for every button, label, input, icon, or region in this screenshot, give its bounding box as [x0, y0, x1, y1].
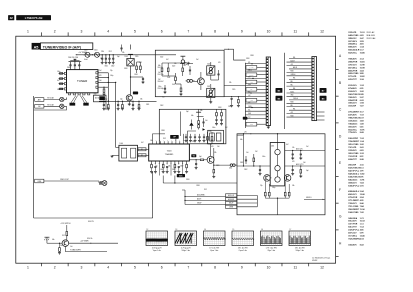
svg-text:11: 11 — [294, 265, 298, 269]
pin — [312, 79, 314, 80]
wire — [237, 165, 270, 167]
connector — [60, 97, 64, 101]
svg-text:A5: A5 — [34, 45, 39, 49]
wire — [59, 88, 65, 90]
svg-text:1205: 1205 — [209, 131, 212, 133]
wire — [289, 89, 312, 91]
diode 6200 — [203, 128, 206, 131]
svg-text:4k7: 4k7 — [166, 59, 169, 61]
svg-text:3698-3V3: 3698-3V3 — [348, 182, 356, 184]
svg-text:2110: 2110 — [101, 51, 104, 53]
resistor 3101 — [60, 78, 63, 80]
svg-text:DEEM: DEEM — [229, 207, 233, 209]
svg-text:+8V: +8V — [244, 132, 247, 134]
svg-text:3208: 3208 — [218, 107, 222, 109]
resistor 3231 — [221, 109, 223, 112]
svg-text:8: 8 — [214, 265, 216, 269]
wire — [289, 99, 312, 101]
capacitor 2106 — [78, 66, 80, 70]
svg-text:100p: 100p — [104, 99, 108, 101]
svg-text:5143: 5143 — [167, 77, 170, 79]
svg-text:3810-CVBS: 3810-CVBS — [348, 144, 359, 146]
svg-text:8: 8 — [214, 30, 216, 34]
pin — [167, 141, 169, 144]
tuner pin — [96, 81, 98, 83]
wire — [237, 198, 258, 200]
capacitor 2244 — [166, 165, 168, 167]
connector — [60, 104, 64, 108]
svg-text:L7SEU7S AB: L7SEU7S AB — [25, 16, 43, 20]
wire — [287, 71, 312, 73]
svg-text:2329-IF-PLL: 2329-IF-PLL — [348, 230, 360, 232]
crystal 1105 — [127, 59, 134, 66]
svg-text:5-C7: 5-C7 — [360, 50, 364, 52]
supply tee — [128, 53, 133, 55]
svg-text:2205: 2205 — [135, 56, 139, 58]
svg-text:5p6: 5p6 — [186, 111, 189, 113]
svg-text:SND-IF: SND-IF — [197, 203, 202, 205]
wire — [245, 77, 266, 79]
resistor 3243 — [162, 164, 164, 167]
svg-text:6-B1: 6-B1 — [360, 150, 364, 152]
resistor 3230 — [216, 109, 218, 112]
svg-text:12: 12 — [320, 30, 324, 34]
ground — [58, 252, 61, 254]
svg-text:1-H4: 1-H4 — [360, 102, 364, 105]
svg-text:5: 5 — [134, 265, 136, 269]
arrow — [76, 54, 77, 55]
net tag black — [177, 174, 185, 177]
capacitor 2105 — [74, 66, 76, 70]
wire — [64, 99, 67, 101]
svg-text:2: 2 — [54, 265, 56, 269]
wire — [287, 106, 312, 108]
pin — [186, 161, 188, 164]
wire — [245, 92, 266, 94]
svg-text:6168-3V3: 6168-3V3 — [348, 91, 356, 93]
svg-text:1k0: 1k0 — [99, 80, 102, 82]
wire emitter — [64, 247, 66, 252]
ground — [267, 126, 270, 128]
svg-text:6427-IF-PLL: 6427-IF-PLL — [348, 170, 360, 173]
svg-text:10: 10 — [267, 265, 271, 269]
svg-text:3492-SDA: 3492-SDA — [348, 217, 357, 220]
svg-text:2760-DEINT: 2760-DEINT — [348, 112, 359, 114]
resistor 3145 — [182, 68, 184, 72]
wire — [116, 147, 119, 149]
wire — [287, 113, 312, 115]
discriminator coil 5401 — [270, 143, 285, 186]
svg-text:6293-TXT: 6293-TXT — [348, 79, 357, 81]
pin — [312, 70, 314, 71]
svg-text:470: 470 — [211, 146, 214, 148]
component value labels — [52, 52, 309, 248]
capacitor 2247 — [178, 165, 180, 167]
svg-text:3593-5V0: 3593-5V0 — [348, 126, 356, 128]
svg-text:3301: 3301 — [172, 169, 176, 171]
pin — [267, 86, 269, 87]
ground — [220, 123, 223, 125]
svg-text:100p: 100p — [272, 187, 276, 189]
pin — [182, 161, 184, 164]
svg-text:1: 1 — [27, 30, 29, 34]
svg-text:6-H3: 6-H3 — [360, 100, 364, 102]
net destination list — [348, 31, 375, 246]
svg-text:11-G6: 11-G6 — [360, 209, 365, 211]
ground — [299, 175, 302, 177]
wire — [287, 75, 312, 77]
svg-text:4k7: 4k7 — [57, 80, 60, 82]
svg-text:2112: 2112 — [109, 51, 112, 53]
svg-text:2k2: 2k2 — [255, 151, 258, 153]
pin — [162, 161, 164, 164]
ground — [185, 139, 188, 141]
ground — [117, 108, 120, 110]
svg-text:5: 5 — [134, 30, 136, 34]
svg-text:9-E8: 9-E8 — [360, 73, 364, 75]
ground — [195, 167, 198, 169]
svg-text:FBL: FBL — [291, 105, 294, 107]
pin — [267, 62, 269, 63]
capacitor 2213 — [199, 134, 201, 136]
ground — [121, 108, 124, 110]
wire — [289, 109, 312, 111]
pin — [267, 101, 269, 102]
svg-text:100n: 100n — [212, 127, 216, 129]
svg-text:100n: 100n — [262, 156, 266, 158]
pin — [179, 141, 181, 144]
pin — [312, 117, 314, 118]
tuner pin — [64, 88, 66, 90]
wire 5V rail — [99, 100, 157, 102]
wire — [287, 85, 312, 87]
resistor 3262 — [211, 137, 213, 141]
svg-text:5401: 5401 — [271, 146, 274, 148]
wire — [264, 181, 266, 192]
wire — [182, 164, 184, 175]
svg-text:2-D9: 2-D9 — [360, 41, 364, 43]
svg-text:6340-IF-PLL: 6340-IF-PLL — [348, 184, 360, 187]
svg-text:SND-IF: SND-IF — [229, 203, 234, 205]
svg-text:7099-3V3: 7099-3V3 — [348, 203, 356, 205]
svg-text:4: 4 — [107, 265, 109, 269]
wire — [64, 105, 67, 107]
svg-text:100n: 100n — [158, 86, 162, 88]
capacitor 2147 — [217, 73, 219, 75]
svg-text:3208: 3208 — [246, 58, 250, 60]
wire — [237, 194, 258, 196]
resistor 3415 — [300, 170, 302, 174]
svg-text:7021-VID: 7021-VID — [348, 147, 357, 149]
net label box — [246, 80, 257, 84]
pin — [174, 161, 176, 164]
svg-text:7756-SCL: 7756-SCL — [348, 132, 357, 134]
svg-text:FBL: FBL — [291, 84, 294, 86]
svg-text:2205: 2205 — [216, 165, 220, 167]
svg-text:8-C7: 8-C7 — [360, 112, 364, 114]
capacitor 2241 — [154, 165, 156, 167]
svg-text:33k: 33k — [122, 52, 125, 54]
wire — [170, 164, 172, 175]
antenna symbol — [45, 236, 50, 238]
wire — [277, 134, 279, 143]
wire AS — [98, 86, 108, 88]
resistor 3142 — [167, 68, 169, 72]
svg-text:4: 4 — [107, 30, 109, 34]
svg-text:10-B5: 10-B5 — [360, 53, 365, 55]
svg-text:5776-VID: 5776-VID — [348, 76, 357, 78]
wire — [245, 103, 266, 105]
svg-text:FBL: FBL — [293, 78, 296, 80]
svg-text:7296-DEINT: 7296-DEINT — [348, 141, 359, 143]
net label box — [138, 154, 146, 157]
svg-text:3301: 3301 — [240, 162, 244, 164]
svg-text:8-A3: 8-A3 — [360, 243, 364, 246]
svg-text:3-D4: 3-D4 — [360, 69, 364, 72]
svg-text:100p: 100p — [160, 169, 164, 171]
tuner pin — [96, 77, 98, 79]
svg-text:100n: 100n — [57, 71, 61, 73]
capacitor 2203 — [202, 121, 204, 123]
svg-text:SIF: SIF — [250, 89, 252, 91]
net label box — [35, 179, 44, 183]
ground — [198, 139, 201, 141]
wire — [245, 110, 266, 112]
svg-text:1k0: 1k0 — [303, 162, 306, 164]
capacitor 2411 — [300, 153, 302, 155]
svg-text:6529-SCL: 6529-SCL — [348, 53, 357, 55]
svg-text:FBL: FBL — [291, 81, 294, 83]
svg-text:1-D8: 1-D8 — [360, 123, 364, 125]
net label box — [226, 194, 237, 197]
wire — [285, 150, 325, 152]
svg-text:3059-3V3: 3059-3V3 — [348, 103, 356, 105]
pin — [175, 141, 177, 144]
svg-text:1105: 1105 — [125, 56, 128, 58]
svg-text:4-B1: 4-B1 — [360, 43, 364, 46]
svg-text:SND-L: SND-L — [248, 69, 252, 71]
svg-text:3803-CVBS: 3803-CVBS — [348, 153, 359, 155]
svg-text:5141: 5141 — [207, 86, 210, 88]
wire IF out — [98, 81, 116, 83]
capacitor 2104 — [70, 66, 72, 70]
wire — [105, 102, 107, 110]
ground — [107, 108, 110, 110]
ground — [299, 157, 302, 159]
ground — [166, 171, 169, 173]
resistor 3101 — [60, 83, 63, 85]
waveform inset 1 — [146, 229, 168, 252]
svg-text:3V3 12-A4: 3V3 12-A4 — [366, 37, 375, 40]
svg-text:6660-AUD-R: 6660-AUD-R — [348, 49, 360, 52]
ground — [291, 157, 294, 159]
junction — [243, 133, 244, 134]
svg-text:2302: 2302 — [111, 66, 115, 68]
svg-text:10k: 10k — [150, 140, 153, 142]
svg-text:1n5: 1n5 — [158, 72, 161, 74]
svg-text:2759-POR: 2759-POR — [348, 197, 358, 199]
wire +5V rail — [76, 54, 156, 56]
svg-text:TXT: TXT — [248, 117, 251, 119]
svg-text:2-H2: 2-H2 — [360, 91, 364, 93]
svg-text:3-F9: 3-F9 — [360, 171, 364, 173]
ground — [128, 103, 131, 105]
svg-text:4k7: 4k7 — [141, 142, 144, 144]
resistor 3151 — [238, 100, 240, 103]
pin — [312, 105, 314, 106]
wire — [185, 196, 226, 198]
svg-text:7200: 7200 — [167, 151, 173, 153]
svg-text:22p: 22p — [260, 185, 263, 187]
pin — [267, 122, 269, 123]
svg-text:33k: 33k — [214, 152, 217, 154]
svg-text:3-F6: 3-F6 — [360, 176, 364, 178]
tuner pin — [83, 93, 85, 95]
wire +5V top — [224, 48, 234, 50]
wire — [289, 58, 312, 60]
svg-text:2584-BCL: 2584-BCL — [348, 43, 358, 46]
net tag black — [191, 154, 196, 157]
wire — [245, 70, 266, 72]
capacitor 2145 — [189, 69, 191, 71]
wire — [137, 61, 141, 63]
svg-text:B: B — [339, 81, 341, 85]
svg-text:8-F6 12V: 8-F6 12V — [88, 221, 94, 223]
net label box — [226, 201, 237, 204]
wire — [237, 206, 258, 208]
svg-text:+12V SWITCH: +12V SWITCH — [61, 223, 71, 225]
svg-text:8-F2: 8-F2 — [360, 156, 364, 158]
ground — [230, 104, 233, 106]
svg-text:3159-SIF: 3159-SIF — [348, 106, 357, 108]
wire — [193, 80, 198, 82]
svg-text:CVBS-E: CVBS-E — [291, 74, 296, 76]
capacitor 2210 — [185, 134, 187, 136]
svg-text:3-B3: 3-B3 — [360, 120, 364, 122]
pin — [267, 116, 269, 117]
transistor 7402 — [284, 175, 291, 182]
svg-text:RGB: RGB — [291, 115, 294, 117]
wire — [185, 199, 226, 201]
svg-text:5342-CVBS: 5342-CVBS — [348, 211, 359, 214]
wire — [158, 164, 160, 175]
svg-text:9-C1: 9-C1 — [360, 168, 364, 170]
wire — [243, 134, 245, 166]
ground — [215, 123, 218, 125]
group border — [244, 63, 246, 128]
wire AGC — [98, 72, 108, 74]
svg-text:IF1: IF1 — [141, 149, 143, 151]
svg-text:TXT: TXT — [248, 77, 251, 79]
svg-text:1100: 1100 — [67, 67, 71, 69]
svg-text:5260: 5260 — [229, 167, 232, 169]
svg-text:070402: 070402 — [312, 260, 317, 262]
capacitor 2212 — [194, 134, 196, 136]
reference triangle — [189, 122, 193, 125]
wire — [184, 190, 186, 205]
svg-text:100p: 100p — [110, 75, 114, 77]
svg-text:2n2: 2n2 — [99, 70, 102, 72]
svg-text:2205: 2205 — [232, 89, 236, 91]
inductor 5104 — [95, 52, 100, 57]
capacitor 2130 — [103, 101, 105, 104]
chassis tag L7SEU7S — [16, 15, 51, 20]
wire — [287, 82, 312, 84]
svg-text:5-F9: 5-F9 — [360, 233, 364, 235]
pin — [267, 68, 269, 69]
wire — [285, 165, 325, 167]
pin — [312, 58, 314, 59]
svg-text:1k0: 1k0 — [162, 97, 165, 99]
shield fan left — [71, 96, 78, 103]
pin — [170, 161, 172, 164]
wire — [245, 63, 266, 65]
svg-text:2-D4: 2-D4 — [360, 196, 364, 199]
svg-text:FBL: FBL — [293, 109, 296, 111]
resistor 3413 — [288, 192, 290, 196]
svg-text:2104 2105 2106: 2104 2105 2106 — [68, 57, 78, 59]
svg-text:10-F6: 10-F6 — [360, 129, 365, 131]
tunable coil 5141 — [207, 88, 215, 97]
svg-text:2302: 2302 — [160, 105, 164, 107]
wire — [317, 111, 325, 113]
svg-text:+8V: +8V — [291, 64, 293, 66]
svg-text:3858-12V: 3858-12V — [348, 38, 357, 40]
tuner pin — [88, 93, 90, 95]
ground — [102, 108, 105, 110]
pin — [312, 64, 314, 65]
ground — [291, 173, 294, 175]
svg-text:10uH: 10uH — [84, 59, 87, 61]
svg-text:7-C4: 7-C4 — [360, 226, 364, 229]
capacitor 2211 — [190, 134, 192, 136]
wire — [287, 102, 312, 104]
svg-text:6-B1: 6-B1 — [360, 35, 364, 37]
ground — [203, 139, 206, 141]
svg-text:SCL: SCL — [248, 110, 251, 112]
svg-text:5p6: 5p6 — [306, 170, 309, 172]
antenna input 0M1 — [35, 98, 44, 102]
board tag — [276, 88, 283, 93]
svg-text:6896-5V0: 6896-5V0 — [348, 47, 356, 49]
wire AGC out — [224, 85, 245, 87]
pin — [171, 141, 173, 144]
ground — [108, 61, 111, 63]
svg-text:VIF: VIF — [173, 137, 176, 139]
svg-text:3562-DEINT: 3562-DEINT — [348, 209, 359, 211]
capacitor 2132 — [117, 101, 119, 104]
svg-text:10: 10 — [267, 30, 271, 34]
capacitor 2260 — [195, 163, 197, 165]
svg-text:8-A9: 8-A9 — [360, 131, 364, 134]
svg-text:3V3 1-A2: 3V3 1-A2 — [366, 31, 374, 34]
wire — [287, 64, 312, 66]
ground — [112, 61, 115, 63]
net label box — [226, 198, 237, 201]
svg-text:4070-12V: 4070-12V — [348, 232, 357, 235]
svg-text:5532-SCL: 5532-SCL — [348, 129, 357, 131]
net label box — [246, 73, 257, 77]
capacitor 2111 — [105, 55, 107, 58]
pin — [267, 104, 269, 105]
wire — [245, 118, 266, 120]
svg-text:20ys 1 div: 20ys 1 div — [267, 250, 275, 252]
svg-text:470: 470 — [292, 161, 295, 163]
transistor 7105 — [126, 95, 132, 101]
wire CVBS — [162, 176, 164, 184]
svg-text:2k2: 2k2 — [60, 245, 63, 247]
svg-text:6105-SCL: 6105-SCL — [348, 85, 357, 87]
